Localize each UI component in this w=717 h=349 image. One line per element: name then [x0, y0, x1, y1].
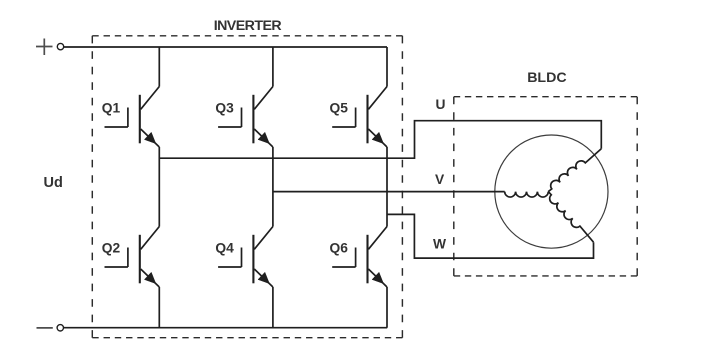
svg-text:Q4: Q4	[215, 241, 234, 256]
svg-text:Q5: Q5	[330, 101, 349, 116]
svg-text:Q2: Q2	[102, 241, 121, 256]
svg-text:BLDC: BLDC	[527, 70, 566, 86]
svg-text:Q6: Q6	[330, 241, 349, 256]
svg-text:U: U	[436, 97, 446, 112]
svg-text:Q1: Q1	[102, 101, 121, 116]
svg-text:Ud: Ud	[44, 175, 63, 191]
svg-text:Q3: Q3	[215, 101, 234, 116]
svg-text:INVERTER: INVERTER	[214, 18, 282, 34]
svg-text:V: V	[435, 172, 445, 187]
svg-text:W: W	[433, 237, 447, 252]
